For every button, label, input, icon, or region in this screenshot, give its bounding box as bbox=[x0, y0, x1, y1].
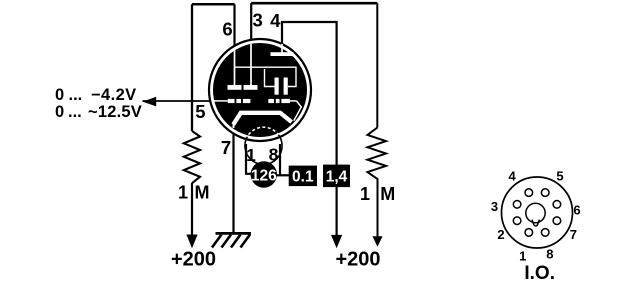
arrowhead measurement point (pin 5 node) bbox=[143, 97, 157, 107]
svg-text:0: 0 bbox=[55, 103, 64, 121]
socket pin 4 hole bbox=[525, 189, 533, 197]
wire pin-3 lead bbox=[250, 3, 252, 45]
svg-text:8: 8 bbox=[546, 247, 553, 262]
socket pin 3 hole bbox=[513, 201, 521, 209]
svg-text:3: 3 bbox=[253, 10, 263, 31]
svg-text:...: ... bbox=[69, 86, 83, 104]
wire left vertical (top wire down to pin-5 node and R1) bbox=[191, 4, 193, 131]
heater current disc 126 bbox=[251, 161, 277, 187]
svg-text:M: M bbox=[195, 183, 210, 203]
svg-text:5: 5 bbox=[556, 169, 563, 184]
tube V1 internal disc bbox=[213, 43, 307, 137]
wire right vertical (top wire down to R2) bbox=[376, 3, 378, 127]
svg-text:1: 1 bbox=[360, 184, 370, 204]
socket key bbox=[532, 220, 540, 226]
svg-text:1: 1 bbox=[519, 248, 526, 263]
wire R1 bottom to +200 arrow bbox=[191, 183, 193, 236]
anode lead (pin 4) inside bbox=[281, 44, 283, 53]
socket pin 7 hole bbox=[553, 217, 561, 225]
value box 0.1 bbox=[289, 166, 317, 187]
grid g2 row lead-in from pin 5 bbox=[214, 100, 228, 102]
svg-text:1: 1 bbox=[178, 183, 188, 203]
wire below 1.4 box to +200 arrow bbox=[336, 187, 338, 237]
socket spigot bbox=[526, 203, 545, 222]
svg-text:~12.5V: ~12.5V bbox=[88, 103, 142, 121]
heater circle inside disc (white dashed) bbox=[245, 127, 282, 164]
beam plate bar left bbox=[275, 78, 279, 95]
svg-text:0.1: 0.1 bbox=[292, 168, 314, 185]
beam plate bar right bbox=[284, 78, 288, 95]
arrow +200 center bbox=[331, 235, 342, 248]
socket pin 2 hole bbox=[513, 217, 521, 225]
socket pin 6 hole bbox=[553, 201, 561, 209]
grid g3 lead (pin 6) inside bbox=[234, 50, 236, 85]
value box 1.4 bbox=[323, 165, 350, 188]
svg-text:6: 6 bbox=[573, 202, 580, 217]
svg-text:...: ... bbox=[68, 103, 82, 121]
wire R2 bottom to +200 arrow bbox=[377, 184, 379, 237]
grid g2 row right tail bbox=[290, 100, 297, 102]
svg-text:8: 8 bbox=[269, 145, 279, 165]
svg-text:+200: +200 bbox=[336, 249, 381, 271]
svg-text:4: 4 bbox=[508, 169, 516, 184]
svg-text:7: 7 bbox=[221, 137, 231, 158]
cathode bbox=[233, 113, 291, 125]
svg-text:4: 4 bbox=[270, 10, 281, 31]
svg-text:0: 0 bbox=[55, 86, 64, 104]
wire pin-5 horizontal (grid measurement node) bbox=[143, 100, 216, 102]
wire top-left (pin 6 to grid-resistor node) bbox=[192, 3, 235, 6]
resistor R1 1M zigzag bbox=[184, 131, 200, 183]
wire 126 disc to 0.1 box bbox=[277, 174, 290, 176]
suppressor-to-cathode diagonal link bbox=[294, 101, 302, 121]
resistor R2 1M zigzag bbox=[368, 128, 387, 185]
wire pin-6 lead bbox=[233, 4, 235, 51]
grid g2 dashes left group bbox=[228, 99, 251, 103]
svg-text:5: 5 bbox=[195, 101, 205, 122]
label 0 ... ~12.5V bbox=[55, 103, 142, 121]
svg-text:3: 3 bbox=[491, 199, 498, 214]
cathode pin-7 stub inside bbox=[233, 122, 235, 128]
arrow +200 left bbox=[186, 235, 197, 249]
label 1M right bbox=[360, 184, 395, 204]
label 0 ... -4.2V bbox=[55, 86, 137, 104]
internal shield connection line bbox=[235, 67, 297, 86]
svg-text:126: 126 bbox=[251, 167, 277, 184]
wire pin-1 heater lead bbox=[246, 144, 252, 174]
grid g1 lead (pin 3) inside bbox=[250, 44, 252, 85]
svg-text:+200: +200 bbox=[171, 249, 216, 271]
svg-text:1: 1 bbox=[246, 145, 256, 165]
svg-text:7: 7 bbox=[570, 227, 577, 242]
svg-text:6: 6 bbox=[222, 18, 232, 39]
heater circle outside disc (black) bbox=[245, 127, 282, 164]
grid g1 bar bbox=[244, 85, 258, 90]
socket pin 1 hole bbox=[525, 229, 533, 237]
svg-text:2: 2 bbox=[497, 227, 504, 242]
wire pin-4 to anode supply branch bbox=[282, 22, 337, 165]
arrow +200 right bbox=[373, 236, 383, 247]
ground symbol bbox=[212, 233, 251, 247]
anode bar bbox=[271, 52, 294, 56]
tube V1 envelope bbox=[209, 39, 311, 141]
socket outline I.O. bbox=[502, 177, 573, 248]
socket pin 5 hole bbox=[541, 189, 549, 197]
wire pin-7 cathode lead down to ground bbox=[232, 127, 234, 233]
grid g2 dashes right group bbox=[268, 99, 290, 103]
wire pin-8 heater lead bbox=[279, 144, 281, 175]
wire top-middle (pin 3 to R2) bbox=[251, 2, 377, 5]
grid g3 bar bbox=[228, 85, 242, 90]
internal shield left stub bbox=[265, 69, 275, 87]
svg-text:M: M bbox=[380, 184, 395, 204]
svg-text:1,4: 1,4 bbox=[326, 169, 348, 186]
label 1M left bbox=[178, 183, 210, 203]
svg-text:−4.2V: −4.2V bbox=[91, 86, 137, 104]
socket pin 8 hole bbox=[541, 229, 549, 237]
svg-text:I.O.: I.O. bbox=[524, 263, 555, 282]
